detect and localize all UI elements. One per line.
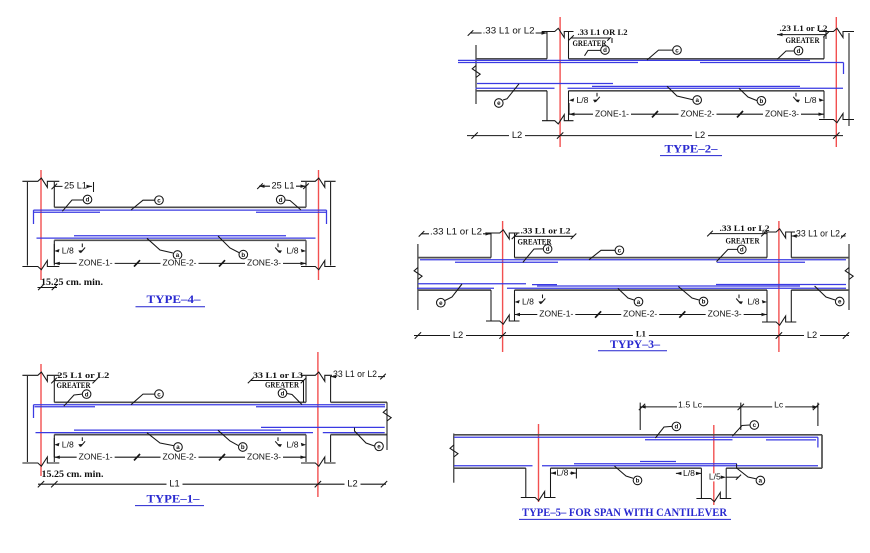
TYPE-4 right column bbox=[305, 182, 307, 207]
TYPE-1 L/8 dim right bbox=[305, 438, 307, 457]
TYPE-5 top bar c segment bbox=[645, 439, 733, 441]
TYPY-3 bottom bar e right bbox=[716, 284, 846, 286]
svg-text:.33 L1 or L2: .33 L1 or L2 bbox=[720, 223, 770, 233]
svg-text:25 L1: 25 L1 bbox=[64, 180, 87, 190]
TYPE-1 beam top line bbox=[54, 401, 306, 403]
TYPE-2 L/8 dim right bbox=[823, 103, 825, 114]
TYPE-1 L1 L2 dimension line bbox=[38, 483, 386, 485]
TYPY-3 dim .33 L1 or L2 GREATER right bbox=[710, 233, 767, 235]
TYPE-5 bottom bar a bbox=[574, 463, 737, 465]
svg-text:d: d bbox=[281, 390, 285, 397]
TYPE-4 label circle c bbox=[131, 200, 155, 210]
TYPY-3 L2 L1 L2 dimension line bbox=[414, 335, 849, 337]
svg-text:a: a bbox=[176, 444, 180, 451]
svg-text:c: c bbox=[753, 422, 757, 429]
svg-text:GREATER: GREATER bbox=[726, 235, 761, 245]
TYPE-2 label circle d mid bbox=[585, 50, 601, 55]
TYPE-2 top bar c continuous bbox=[458, 59, 810, 61]
svg-text:ZONE-1-: ZONE-1- bbox=[539, 309, 573, 319]
TYPE-4 beam bottom line bbox=[54, 239, 306, 241]
TYPE-2 red centerline left bbox=[559, 17, 561, 147]
TYPE-2 label circle d right bbox=[777, 51, 794, 59]
TYPE-2 beam bottom line bbox=[476, 90, 547, 92]
svg-text:ZONE-2-: ZONE-2- bbox=[623, 309, 657, 319]
svg-text:.23 L1 or L2: .23 L1 or L2 bbox=[780, 23, 828, 33]
TYPE-4 zone dimension line bbox=[54, 262, 306, 264]
svg-text:L/8: L/8 bbox=[556, 468, 568, 478]
svg-text:L2: L2 bbox=[695, 130, 705, 140]
svg-text:TYPE–1–: TYPE–1– bbox=[147, 493, 200, 505]
svg-text:e: e bbox=[377, 444, 381, 451]
svg-text:L2: L2 bbox=[807, 330, 817, 340]
TYPE-1 beam right end with break bbox=[386, 402, 388, 450]
svg-text:15.25 cm. min.: 15.25 cm. min. bbox=[42, 469, 104, 480]
TYPE-4 red centerline left bbox=[40, 170, 42, 280]
TYPE-2 dim .23 L1 or L2 GREATER right bbox=[777, 34, 826, 36]
TYPY-3 top bar d segments bbox=[455, 261, 558, 263]
svg-text:L/8: L/8 bbox=[522, 297, 534, 307]
TYPE-4 beam top line bbox=[54, 206, 306, 208]
svg-text:L/8: L/8 bbox=[287, 246, 299, 256]
TYPY-3 dim 33 L1 or L2 right bbox=[791, 235, 845, 237]
TYPY-3 red centerline left bbox=[502, 221, 504, 352]
TYPE-1 top bar d segments bbox=[35, 406, 96, 408]
svg-text:b: b bbox=[702, 299, 706, 306]
svg-text:ZONE-3-: ZONE-3- bbox=[247, 258, 281, 268]
TYPY-3 bottom bar b bbox=[537, 285, 800, 287]
TYPE-4 label circle a bbox=[147, 238, 173, 253]
TYPY-3 label circle d right bbox=[717, 249, 738, 261]
TYPE-5 bottom bar b bbox=[542, 465, 818, 467]
TYPY-3 label circle d left bbox=[523, 249, 543, 263]
TYPE-4 bottom bar a bbox=[37, 237, 316, 239]
svg-text:TYPE–5– FOR SPAN WITH CANTILEV: TYPE–5– FOR SPAN WITH CANTILEVER bbox=[522, 507, 728, 519]
svg-text:ZONE-1-: ZONE-1- bbox=[79, 258, 113, 268]
svg-text:15.25 cm. min.: 15.25 cm. min. bbox=[41, 277, 103, 288]
TYPY-3 bottom bar mid dashes bbox=[532, 284, 557, 286]
svg-text:d: d bbox=[86, 197, 90, 204]
svg-text:ZONE-2-: ZONE-2- bbox=[681, 108, 715, 118]
TYPE-5 first support column bbox=[525, 468, 527, 497]
TYPE-1 zone dimension line bbox=[54, 456, 306, 458]
TYPE-4 red centerline right bbox=[318, 170, 320, 280]
TYPE-1 dim 33 L1 or L2 right span bbox=[331, 376, 385, 378]
TYPE-5 red centerline right bbox=[713, 425, 715, 505]
TYPE-4 top bar c with end hooks bbox=[34, 209, 327, 211]
TYPE-2 top bar d segments bbox=[458, 62, 638, 64]
TYPY-3 bottom bar a bbox=[417, 287, 494, 289]
TYPE-4 left column bbox=[26, 182, 28, 266]
TYPE-4 label circle d left bbox=[62, 200, 83, 211]
TYPE-5 beam left end with break bbox=[453, 434, 455, 483]
svg-text:L/8: L/8 bbox=[748, 297, 760, 307]
svg-text:a: a bbox=[759, 478, 763, 485]
svg-text:e: e bbox=[439, 300, 443, 307]
TYPY-3 right column bbox=[766, 232, 768, 258]
svg-text:ZONE-1-: ZONE-1- bbox=[79, 451, 113, 461]
TYPE-4 top bar d segments bbox=[34, 211, 101, 213]
TYPE-2 bottom bar e bbox=[477, 83, 613, 85]
TYPY-3 red centerline right bbox=[778, 221, 780, 352]
svg-text:c: c bbox=[675, 47, 679, 54]
TYPE-5 label circle d bbox=[655, 426, 672, 438]
TYPY-3 label circle c bbox=[589, 250, 615, 259]
svg-text:25 L1: 25 L1 bbox=[272, 180, 295, 190]
TYPE-4 label circle d right bbox=[285, 200, 301, 210]
TYPY-3 label circle e left bbox=[445, 284, 462, 301]
svg-text:d: d bbox=[797, 48, 801, 55]
TYPE-1 red centerline left bbox=[40, 364, 42, 476]
TYPE-1 label circle c bbox=[131, 394, 155, 405]
TYPE-2 L2 dimension line bbox=[467, 135, 843, 137]
TYPE-2 zone dimension line bbox=[569, 113, 824, 115]
svg-text:b: b bbox=[636, 478, 640, 485]
TYPE-1 red centerline right bbox=[317, 352, 319, 497]
svg-text:c: c bbox=[618, 248, 622, 255]
TYPE-5 bottom bar left stub bbox=[454, 465, 533, 467]
TYPE-1 left column bbox=[26, 376, 28, 462]
svg-text:TYPE–2–: TYPE–2– bbox=[665, 143, 718, 155]
svg-text:.33 L1 OR L2: .33 L1 OR L2 bbox=[578, 27, 628, 37]
svg-text:.33 L1 or L2: .33 L1 or L2 bbox=[430, 226, 482, 236]
svg-text:33 L1 or L2: 33 L1 or L2 bbox=[333, 369, 377, 379]
TYPE-2 beam left end with break bbox=[475, 45, 477, 104]
TYPE-1 bottom bar e bbox=[261, 426, 385, 428]
svg-text:GREATER: GREATER bbox=[573, 38, 608, 48]
TYPE-5 second support column bbox=[700, 468, 702, 498]
TYPY-3 dim .33 L1 or L2 GREATER left bbox=[515, 235, 574, 237]
TYPE-2 middle column below beam bbox=[546, 91, 548, 121]
svg-text:c: c bbox=[157, 197, 161, 204]
TYPE-2 dim .33 L1 OR L2 GREATER mid bbox=[571, 37, 610, 39]
svg-text:L/8: L/8 bbox=[62, 246, 74, 256]
svg-text:d: d bbox=[546, 246, 550, 253]
TYPE-5 beam top line bbox=[454, 434, 822, 436]
svg-text:d: d bbox=[675, 424, 679, 431]
TYPE-2 label circle b bbox=[739, 88, 757, 100]
TYPE-1 L/8 dim left bbox=[53, 438, 55, 457]
svg-text:L/8: L/8 bbox=[577, 95, 589, 105]
TYPE-1 dim 25 L1 or L2 GREATER left bbox=[54, 380, 95, 382]
TYPY-3 zone dimension line bbox=[515, 314, 768, 316]
svg-text:a: a bbox=[695, 97, 699, 104]
TYPE-5 dim 1.5 Lc and Lc bbox=[639, 403, 641, 430]
svg-text:.33 L1 or L2: .33 L1 or L2 bbox=[483, 26, 535, 36]
TYPE-2 bottom bar b bbox=[592, 85, 800, 87]
svg-text:e: e bbox=[838, 299, 842, 306]
svg-text:.33 L1 or L2: .33 L1 or L2 bbox=[521, 225, 571, 235]
TYPE-4 L/8 dim left bbox=[53, 244, 55, 263]
svg-text:e: e bbox=[497, 100, 501, 107]
TYPE-2 right column bbox=[823, 37, 825, 59]
TYPE-1 bottom bar b bbox=[74, 429, 281, 431]
svg-text:b: b bbox=[760, 98, 764, 105]
svg-text:ZONE-2-: ZONE-2- bbox=[163, 451, 197, 461]
svg-text:33 L1 or L3: 33 L1 or L3 bbox=[253, 370, 303, 380]
TYPE-5 label circle a bbox=[737, 464, 756, 479]
TYPE-1 middle column bbox=[305, 376, 307, 402]
TYPE-2 label circle a bbox=[667, 86, 693, 100]
svg-text:L/8: L/8 bbox=[683, 468, 695, 478]
TYPE-5 red centerline left bbox=[538, 424, 540, 502]
TYPY-3 beam top line bbox=[418, 257, 491, 259]
TYPE-1 label circle d right bbox=[287, 394, 302, 405]
TYPE-2 label circle e bbox=[503, 84, 519, 100]
svg-text:25 L1 or L2: 25 L1 or L2 bbox=[57, 370, 109, 380]
svg-text:GREATER: GREATER bbox=[265, 380, 300, 390]
TYPE-1 bottom bar a bbox=[36, 432, 314, 434]
svg-text:GREATER: GREATER bbox=[786, 35, 821, 45]
svg-text:L2: L2 bbox=[512, 130, 522, 140]
TYPE-5 L/8 dim second support bbox=[676, 472, 702, 474]
TYPE-4 L/8 dim right bbox=[305, 244, 307, 263]
TYPE-1 top bar c with left hook bbox=[34, 404, 386, 406]
TYPE-1 label circle b bbox=[218, 430, 238, 445]
svg-text:d: d bbox=[740, 247, 744, 254]
TYPE-1 beam bottom line bbox=[54, 434, 306, 436]
TYPE-4 dim 25 L1 left bbox=[54, 185, 92, 187]
svg-text:ZONE-2-: ZONE-2- bbox=[163, 258, 197, 268]
TYPY-3 dim .33 L1 or L2 left bbox=[421, 233, 491, 235]
svg-text:L/8: L/8 bbox=[805, 95, 817, 105]
svg-text:ZONE-3-: ZONE-3- bbox=[247, 451, 281, 461]
TYPE-5 top bar d with right hook bbox=[454, 436, 818, 438]
TYPE-2 label circle c bbox=[647, 50, 673, 60]
TYPE-4 dim 25 L1 right bbox=[259, 185, 306, 187]
TYPE-1 label circle e bbox=[355, 428, 375, 446]
TYPE-4 bottom bar b bbox=[74, 235, 286, 237]
svg-text:L2: L2 bbox=[347, 479, 357, 489]
svg-text:b: b bbox=[241, 252, 245, 259]
svg-text:ZONE-3-: ZONE-3- bbox=[708, 309, 742, 319]
TYPE-2 middle column above beam bbox=[546, 32, 548, 59]
TYPE-2 L/8 dim left bbox=[568, 103, 570, 114]
svg-text:L1: L1 bbox=[169, 479, 179, 489]
TYPE-1 label circle d left bbox=[64, 394, 82, 406]
svg-text:L2: L2 bbox=[453, 330, 463, 340]
TYPY-3 L/8 dim left bbox=[514, 294, 516, 315]
svg-text:GREATER: GREATER bbox=[57, 380, 92, 390]
svg-text:TYPE–4–: TYPE–4– bbox=[147, 294, 201, 306]
svg-text:d: d bbox=[279, 197, 283, 204]
svg-text:ZONE-1-: ZONE-1- bbox=[595, 108, 629, 118]
TYPY-3 label circle a bbox=[618, 288, 634, 300]
svg-text:d: d bbox=[603, 47, 607, 54]
svg-text:Lc: Lc bbox=[774, 400, 784, 410]
svg-text:a: a bbox=[637, 299, 641, 306]
TYPE-5 L/8 dim first support bbox=[575, 468, 577, 478]
TYPE-5 L/5 dim cantilever bbox=[726, 476, 738, 478]
TYPE-5 label circle b bbox=[614, 466, 633, 478]
TYPY-3 beam right end with break bbox=[848, 244, 850, 310]
svg-text:33 L1 or L2: 33 L1 or L2 bbox=[796, 229, 840, 239]
svg-text:L/8: L/8 bbox=[287, 439, 299, 449]
TYPY-3 left column bbox=[490, 233, 492, 258]
TYPE-2 bottom bar a bbox=[476, 87, 555, 89]
svg-text:1.5 Lc: 1.5 Lc bbox=[678, 399, 703, 409]
svg-text:ZONE-3-: ZONE-3- bbox=[765, 108, 799, 118]
TYPE-5 bottom bar short segment bbox=[640, 461, 676, 463]
svg-text:b: b bbox=[241, 444, 245, 451]
svg-text:L/8: L/8 bbox=[62, 439, 74, 449]
TYPE-1 label circle a bbox=[147, 433, 174, 446]
TYPY-3 bottom bar e left bbox=[418, 283, 526, 285]
TYPY-3 L/8 dim right bbox=[766, 294, 768, 315]
TYPE-5 beam bottom line bbox=[454, 467, 526, 469]
svg-text:c: c bbox=[157, 391, 161, 398]
TYPY-3 top bar c continuous bbox=[420, 259, 846, 261]
TYPY-3 beam bottom line bbox=[418, 289, 491, 291]
TYPE-2 dim .33 L1 or L2 left bbox=[470, 32, 547, 34]
svg-text:L/5: L/5 bbox=[709, 472, 721, 482]
TYPE-2 beam top line bbox=[476, 58, 547, 60]
TYPY-3 label circle e right bbox=[815, 286, 836, 300]
TYPE-2 red centerline right bbox=[835, 17, 837, 147]
svg-text:d: d bbox=[85, 391, 89, 398]
TYPE-4 label circle b bbox=[218, 236, 239, 253]
TYPY-3 beam left end with break bbox=[417, 244, 419, 310]
TYPY-3 label circle b bbox=[678, 287, 699, 301]
TYPE-1 dim 33 L1 or L3 GREATER right bbox=[251, 380, 304, 382]
svg-text:TYPY–3–: TYPY–3– bbox=[610, 339, 660, 351]
TYPE-5 beam right end bbox=[821, 435, 823, 468]
TYPE-5 label circle c bbox=[732, 425, 749, 436]
svg-text:L1: L1 bbox=[636, 328, 646, 338]
